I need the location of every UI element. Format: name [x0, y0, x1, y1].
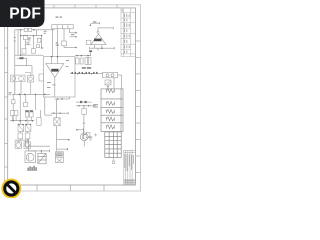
junction dots mid rail [12, 120, 33, 122]
node dot [90, 24, 92, 26]
label pin numbers [56, 34, 75, 45]
label net left edge [9, 92, 12, 95]
lamp column box [101, 89, 123, 132]
amplifier module U1 box [44, 57, 76, 97]
lamp L5 [107, 125, 115, 129]
resistor R10 [37, 38, 41, 42]
PDF badge [0, 0, 45, 27]
sheet outer border frame [4, 5, 140, 191]
junction dots crystal net [53, 98, 63, 114]
transistor Q1 [25, 151, 36, 163]
wire crystal net [45, 97, 70, 118]
U1 label bar [51, 69, 58, 72]
junction dots mesh [20, 35, 34, 56]
node cross mark [94, 134, 97, 137]
wire relay to lamp box right [114, 75, 122, 89]
wire J1 pin1 [52, 29, 54, 57]
U2 label bar [94, 39, 102, 42]
resistor R6 [85, 58, 88, 65]
fuse F1 on top bus [24, 28, 31, 31]
wire node mesh upper-left [14, 30, 44, 55]
junction dots U1 top [51, 56, 59, 58]
lamp L2 [107, 101, 115, 105]
relay RL1 [103, 72, 118, 78]
border zone tick marks [4, 5, 140, 191]
diode D1 [25, 42, 31, 45]
wire diode ladder top [76, 102, 96, 106]
label bars under resistors [82, 67, 91, 68]
wire supply rail right of U1 [75, 52, 91, 56]
resistor R1 [23, 35, 27, 40]
resistor R2 on pin3 [61, 41, 66, 46]
wire K2 stubs [25, 73, 31, 95]
capacitor C9 [18, 133, 23, 139]
op-amp U2 [91, 34, 106, 45]
junction dots mesh2 [41, 35, 42, 49]
capacitor C10 [25, 133, 30, 139]
label text under Q1 [28, 166, 37, 171]
label net names [44, 31, 47, 34]
electrolytic C7 with polarity caps [25, 110, 33, 112]
diode D2 pair on rail [72, 72, 98, 74]
inductor label bar [20, 57, 24, 59]
varistor RV2 [25, 124, 31, 131]
wire U4 connections [15, 82, 21, 95]
wire U1 internal [52, 57, 58, 97]
wire K1 feed [40, 151, 42, 153]
title block bottom-right vertical text marks [124, 154, 134, 183]
transistor Q3 [80, 133, 88, 141]
wire component stubs left mesh [12, 116, 31, 142]
transistor Q4 [15, 142, 21, 148]
resistor R12 [86, 133, 90, 138]
wire Q3 emitter [83, 141, 85, 147]
transistor Q5 [24, 142, 30, 148]
prohibition icon [1, 179, 21, 199]
title block strip top-right [121, 8, 136, 57]
wire left mesh verticals [13, 94, 40, 124]
capacitor C5 [12, 100, 16, 104]
capacitor C6 [23, 102, 27, 106]
wire branch to Q3 [77, 128, 86, 139]
varistor RV1 [18, 124, 24, 131]
terminal dots [67, 139, 70, 150]
label U2 [93, 21, 96, 22]
power flag VCC [89, 50, 92, 52]
resistor R9 [11, 111, 18, 116]
node ring U2 apex [97, 31, 99, 33]
title block vertical text marks [122, 9, 130, 53]
lamp L3 [107, 109, 115, 113]
optocoupler U4 [11, 75, 26, 82]
diode D3 [80, 101, 87, 103]
label left of lamp column [93, 104, 98, 107]
battery BT1 stack [55, 152, 63, 163]
label TR1 [56, 17, 63, 18]
lamp L1 [107, 89, 115, 93]
connector J1 header [52, 25, 73, 29]
label U1 pin names [47, 60, 69, 88]
ground symbol GND1 [88, 137, 93, 141]
resistor R8 [82, 108, 87, 114]
label R1 value [28, 38, 31, 41]
resistor R3 [86, 40, 91, 44]
wire top-left bus [15, 30, 55, 95]
capacitor C4 on U1 left [39, 74, 44, 81]
relay K2 [28, 76, 34, 83]
wire left mesh rail [12, 93, 50, 95]
crystal Y1 [54, 118, 60, 126]
terminal node TP1 [75, 32, 77, 48]
wire to Q1 [29, 139, 50, 152]
grid output pin [112, 157, 115, 163]
capacitor C1 [22, 49, 26, 54]
relay K1 [38, 153, 46, 164]
junction dots row [18, 124, 31, 125]
resistor R4 [76, 58, 79, 64]
wire mid mesh rail [10, 120, 34, 122]
transformer T1 winding symbol [105, 80, 111, 85]
junction dots rail [76, 55, 88, 57]
capacitor C2 [32, 49, 36, 54]
node dot [76, 129, 78, 131]
wire relay to lamp box [107, 85, 109, 89]
wire U2 output [98, 27, 113, 32]
lamp L4 [107, 117, 115, 121]
junction dots top bus [20, 29, 35, 31]
wire upper-left sub [15, 58, 32, 75]
battery hatch marks [56, 153, 62, 157]
pin mark [107, 86, 108, 87]
wire mid rail to relay [70, 73, 103, 75]
svg-text:PDF: PDF [9, 6, 41, 23]
wire sense tap [90, 22, 99, 24]
wire J1 pin2 [57, 29, 59, 57]
junction dots ladder [78, 105, 89, 106]
junction dot [41, 150, 43, 152]
sheet inner border frame [8, 8, 136, 185]
wire J1 pin4 [70, 29, 77, 37]
terminal grid matrix [105, 132, 121, 157]
title block bottom-right [124, 150, 136, 185]
wire crystal down [57, 126, 69, 151]
capacitor C11 [37, 45, 40, 48]
capacitor C8 [37, 118, 41, 126]
wire low mesh rail [15, 140, 50, 146]
op-amp U1 triangle [46, 64, 64, 78]
resistor R7 [88, 58, 91, 65]
wire J1 pin3 [64, 29, 76, 48]
wire U2 inputs [90, 45, 115, 51]
junction dot [101, 47, 103, 49]
wire R8 down [83, 106, 86, 133]
resistor R5 [80, 58, 83, 64]
junction dots rail2 [77, 73, 93, 74]
junction dots left rail [19, 94, 46, 96]
